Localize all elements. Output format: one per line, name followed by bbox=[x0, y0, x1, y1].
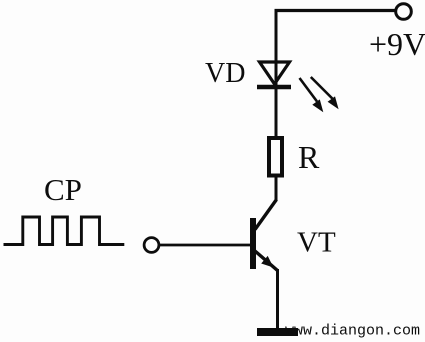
LED VD triangle (anode) bbox=[260, 62, 290, 84]
resistor R bbox=[269, 138, 282, 176]
input terminal circle bbox=[144, 238, 159, 253]
LED VD cathode bar bbox=[257, 85, 291, 90]
wire: +9V top rail bbox=[275, 9, 396, 12]
transistor VT collector lead bbox=[255, 200, 277, 230]
terminal: +9V supply bbox=[396, 4, 412, 20]
transistor VT emitter arrowhead bbox=[261, 256, 273, 268]
LED light arrow 2 bbox=[311, 77, 339, 109]
wire: rail corner down through LED to resistor bbox=[275, 9, 278, 137]
svg-text:VD: VD bbox=[205, 58, 245, 89]
svg-text:CP: CP bbox=[44, 172, 82, 207]
svg-text:R: R bbox=[298, 139, 320, 175]
CP waveform bbox=[4, 217, 125, 245]
svg-text:+9V: +9V bbox=[369, 26, 425, 62]
svg-text:VT: VT bbox=[297, 227, 336, 259]
LED light arrow 1 bbox=[300, 78, 324, 112]
wire: emitter to ground bbox=[276, 269, 279, 330]
transistor VT emitter lead bbox=[255, 251, 278, 271]
transistor VT base bar bbox=[250, 218, 256, 269]
svg-text:www.diangon.com: www.diangon.com bbox=[285, 323, 420, 340]
wire: resistor to collector bbox=[275, 176, 278, 201]
wire: input terminal to base bbox=[160, 244, 252, 247]
ground bbox=[257, 328, 298, 336]
